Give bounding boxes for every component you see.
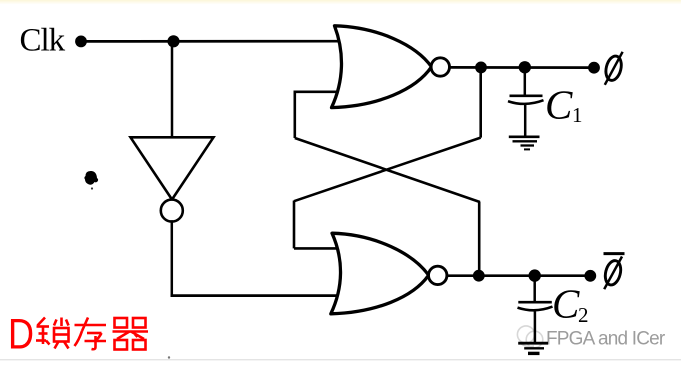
inverter U1 triangle — [131, 137, 214, 221]
svg-text:2: 2 — [578, 303, 589, 327]
wire feedback: horizontal into U3 upper input — [294, 247, 341, 250]
svg-text:C: C — [552, 281, 580, 327]
wire Clk horizontal to top NOR input — [81, 40, 340, 43]
node phi symbol — [604, 52, 624, 85]
ink blot speck — [84, 171, 98, 185]
junction Clk / inverter tap — [167, 35, 179, 47]
wire feedback: right vertical (bottom) down to U3 output node — [478, 202, 481, 276]
svg-text:D: D — [8, 312, 34, 359]
junction U3 output / C2 tap — [529, 269, 541, 281]
char 存 — [75, 318, 107, 350]
label C2 — [552, 281, 589, 328]
U2 output bubble — [431, 58, 449, 76]
capacitor C1 — [508, 71, 544, 136]
watermark logo — [517, 326, 542, 348]
capacitor C2 — [518, 280, 553, 343]
label D锁存器 (red) — [8, 312, 148, 359]
wire inverter output horizontal to bottom NOR input — [171, 294, 342, 297]
svg-text:1: 1 — [572, 103, 583, 127]
NOR gate U2 (top) — [332, 26, 450, 108]
ground under C2 — [518, 343, 548, 353]
node phi-bar terminal dot — [584, 270, 596, 282]
wire feedback: left vertical (top) — [293, 91, 296, 139]
NOR gate U3 (bottom) — [331, 233, 447, 314]
node phi terminal dot — [588, 62, 600, 74]
wire U2 output horizontal — [450, 66, 595, 69]
wire U3 output horizontal — [447, 274, 591, 277]
bottom separator line — [0, 359, 681, 360]
node phi-bar symbol — [603, 254, 625, 290]
char 器 — [113, 318, 149, 350]
wire feedback: left vertical (bottom) — [293, 201, 296, 249]
wire inverter input vertical — [171, 41, 174, 137]
svg-text:C: C — [545, 82, 573, 128]
junction U3 output / feedback tap — [473, 270, 485, 282]
inverter U1 output bubble — [161, 200, 183, 222]
wire feedback: diagonal up-left to down-right — [295, 138, 480, 202]
wire feedback: U3 output to U2 lower input (horizontal) — [295, 91, 341, 94]
junction U2 output / C1 tap — [519, 61, 531, 73]
char 锁 — [36, 318, 69, 349]
label C1 — [545, 82, 583, 128]
small speck bottom center — [168, 356, 170, 358]
wire inverter output vertical — [171, 220, 174, 295]
ground under C1 — [509, 137, 540, 150]
U3 output bubble — [429, 266, 447, 284]
wire feedback: U2 output vertical down — [479, 67, 482, 137]
svg-text:FPGA and ICer: FPGA and ICer — [546, 329, 666, 350]
svg-text:Clk: Clk — [20, 23, 66, 59]
wire feedback: diagonal down-left — [294, 138, 481, 202]
node Clk terminal dot — [75, 36, 87, 48]
junction U2 output / feedback tap — [475, 62, 487, 74]
